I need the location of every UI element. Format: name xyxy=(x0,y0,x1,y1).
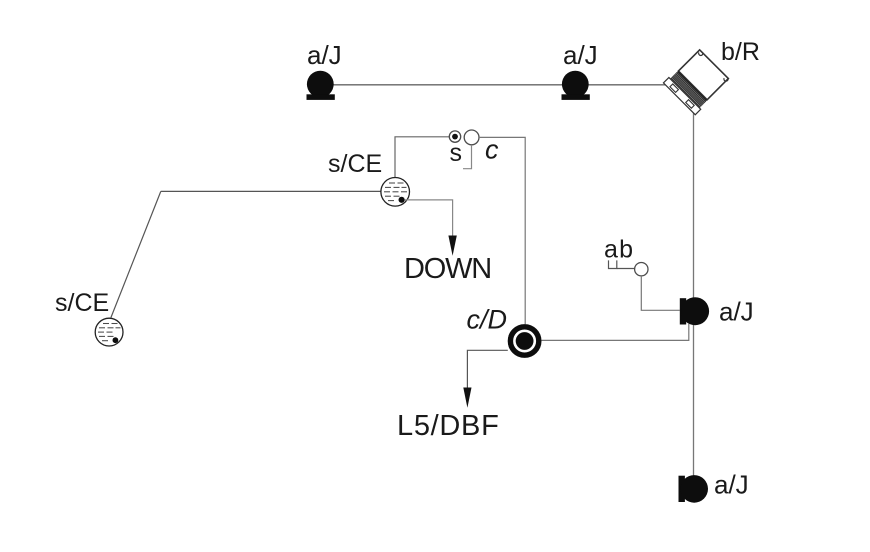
lamp a/J middle-right symbol (rotated, bar on left) xyxy=(680,297,709,325)
arrow L5/DBF xyxy=(463,388,471,408)
wire: from node ab down and right to middle lamp a/J xyxy=(641,276,680,310)
svg-text:a/J: a/J xyxy=(307,40,342,70)
wire: top horizontal bus from lamp a/J #1 to connector b/R xyxy=(322,84,667,86)
svg-text:ab: ab xyxy=(604,236,634,264)
svg-text:DOWN: DOWN xyxy=(404,253,491,285)
wire: long horizontal from corner to sensor s/CE upper xyxy=(161,190,381,192)
svg-text:s/CE: s/CE xyxy=(328,150,382,178)
svg-text:a/J: a/J xyxy=(714,470,749,500)
connector b/R (rotated block with coil hatch and slotted strip) xyxy=(663,48,730,115)
svg-text:c/D: c/D xyxy=(467,305,508,335)
svg-text:b/R: b/R xyxy=(721,38,760,66)
sensor s/CE lower (hatched circle with dot) xyxy=(95,318,123,346)
wire: vertical main bus from b/R down to bottom lamp a/J xyxy=(693,113,695,477)
wire: from grommet c/D left then down to L5/DBF arrow xyxy=(467,350,507,388)
node s (circle with centre dot) xyxy=(449,131,460,142)
wire: diagonal down to sensor s/CE lower xyxy=(111,191,161,317)
node c (open circle) xyxy=(464,130,479,145)
wire: riser from sensor s/CE up and right to node s xyxy=(395,137,449,179)
lamp a/J top-middle symbol xyxy=(562,71,590,100)
arrow DOWN xyxy=(448,236,456,256)
svg-text:a/J: a/J xyxy=(563,40,598,70)
svg-text:c: c xyxy=(485,135,499,165)
svg-text:s: s xyxy=(450,139,463,167)
node ab (open circle) xyxy=(635,263,648,276)
wire: from grommet c/D right to middle lamp a/J xyxy=(542,324,689,341)
svg-text:a/J: a/J xyxy=(719,297,754,327)
lamp a/J top-left symbol xyxy=(307,71,335,100)
wire: stub below node c xyxy=(463,145,472,169)
svg-text:L5/DBF: L5/DBF xyxy=(397,410,500,442)
wire: from node c right then down to grommet c/D xyxy=(479,137,525,324)
svg-text:s/CE: s/CE xyxy=(55,289,109,317)
lamp a/J bottom-right symbol (rotated, bar on left) xyxy=(679,475,709,503)
wire: from s/CE upper dot right then down to DOWN arrow xyxy=(405,200,453,236)
sensor s/CE upper (hatched circle with dot) xyxy=(381,178,410,207)
wire: bracket under ab to node circle xyxy=(609,260,617,268)
grommet c/D xyxy=(510,327,538,355)
